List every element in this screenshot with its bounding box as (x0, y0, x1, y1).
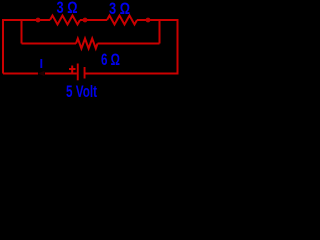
node C junction dot (146, 18, 151, 23)
wire: bottom wire from arrow to battery (45, 73, 77, 75)
battery B1 plus sign (69, 68, 76, 70)
background (0, 0, 181, 100)
wire: top wire right segment (137, 19, 178, 21)
wire: right outer vertical (177, 19, 179, 75)
resistor R3 zigzag (6 ohm, middle) (76, 39, 98, 49)
wire: middle branch right horizontal (98, 43, 160, 45)
battery B1 short plate (negative) (84, 67, 86, 79)
wire: bottom wire left of current arrow (3, 73, 38, 75)
wire: left outer vertical (2, 19, 4, 74)
wire: middle branch right vertical (159, 20, 161, 44)
svg-text:3 Ω: 3 Ω (57, 0, 78, 17)
svg-text:I: I (39, 56, 43, 71)
wire: top wire between R1 and R2 (80, 19, 107, 21)
svg-text:6 Ω: 6 Ω (101, 51, 120, 69)
svg-text:5 Volt: 5 Volt (66, 83, 97, 100)
node B junction dot (83, 18, 88, 23)
battery B1 long plate (positive) (77, 64, 79, 81)
wire: middle branch left horizontal (22, 43, 77, 45)
current arrowhead (dark) (38, 71, 45, 76)
wire: top wire left segment (3, 19, 50, 21)
wire: middle branch left vertical (21, 20, 23, 44)
wire: bottom wire right of battery (86, 73, 178, 75)
resistor R2 zigzag (3 ohm, top-right) (107, 16, 137, 25)
resistor R1 zigzag (3 ohm, top-left) (50, 16, 80, 25)
node A junction dot (36, 18, 41, 23)
svg-text:3 Ω: 3 Ω (109, 0, 130, 18)
